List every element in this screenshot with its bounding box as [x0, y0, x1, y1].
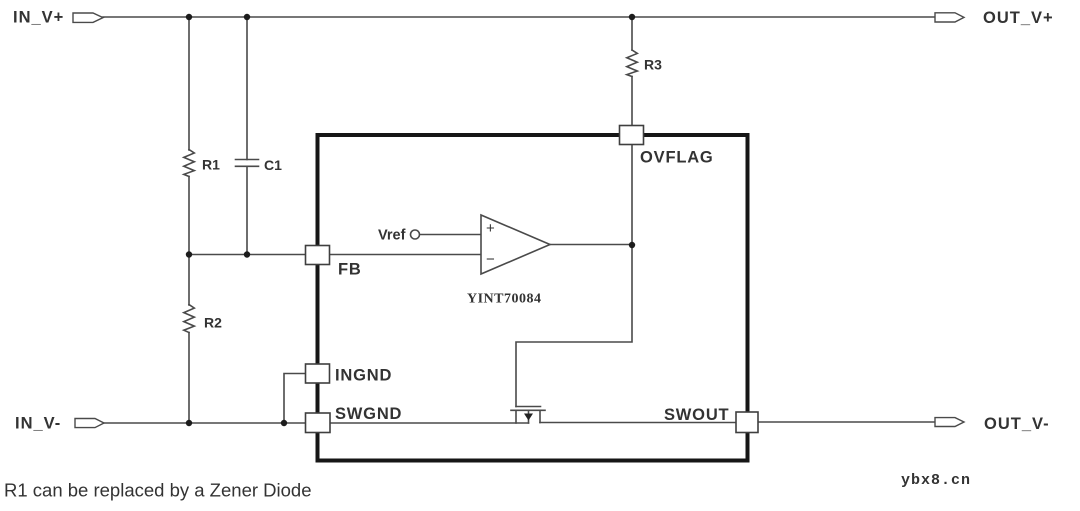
svg-text:INGND: INGND: [335, 367, 392, 385]
svg-text:FB: FB: [338, 261, 362, 279]
svg-text:R3: R3: [644, 57, 662, 73]
svg-text:Vref: Vref: [378, 228, 406, 244]
svg-text:SWOUT: SWOUT: [664, 406, 729, 424]
svg-text:IN_V-: IN_V-: [15, 415, 61, 433]
svg-text:+: +: [486, 220, 495, 237]
svg-text:R1: R1: [202, 157, 220, 173]
svg-text:IN_V+: IN_V+: [13, 9, 64, 27]
svg-text:YINT70084: YINT70084: [467, 292, 542, 307]
svg-text:OVFLAG: OVFLAG: [640, 149, 714, 167]
svg-text:OUT_V+: OUT_V+: [983, 9, 1054, 27]
svg-text:SWGND: SWGND: [335, 405, 402, 423]
svg-text:R1 can be replaced by a Zener: R1 can be replaced by a Zener Diode: [4, 480, 312, 501]
svg-text:−: −: [486, 251, 495, 268]
svg-text:C1: C1: [264, 157, 282, 173]
svg-text:OUT_V-: OUT_V-: [984, 415, 1050, 433]
svg-text:ybx8.cn: ybx8.cn: [901, 472, 971, 489]
svg-text:R2: R2: [204, 315, 222, 331]
